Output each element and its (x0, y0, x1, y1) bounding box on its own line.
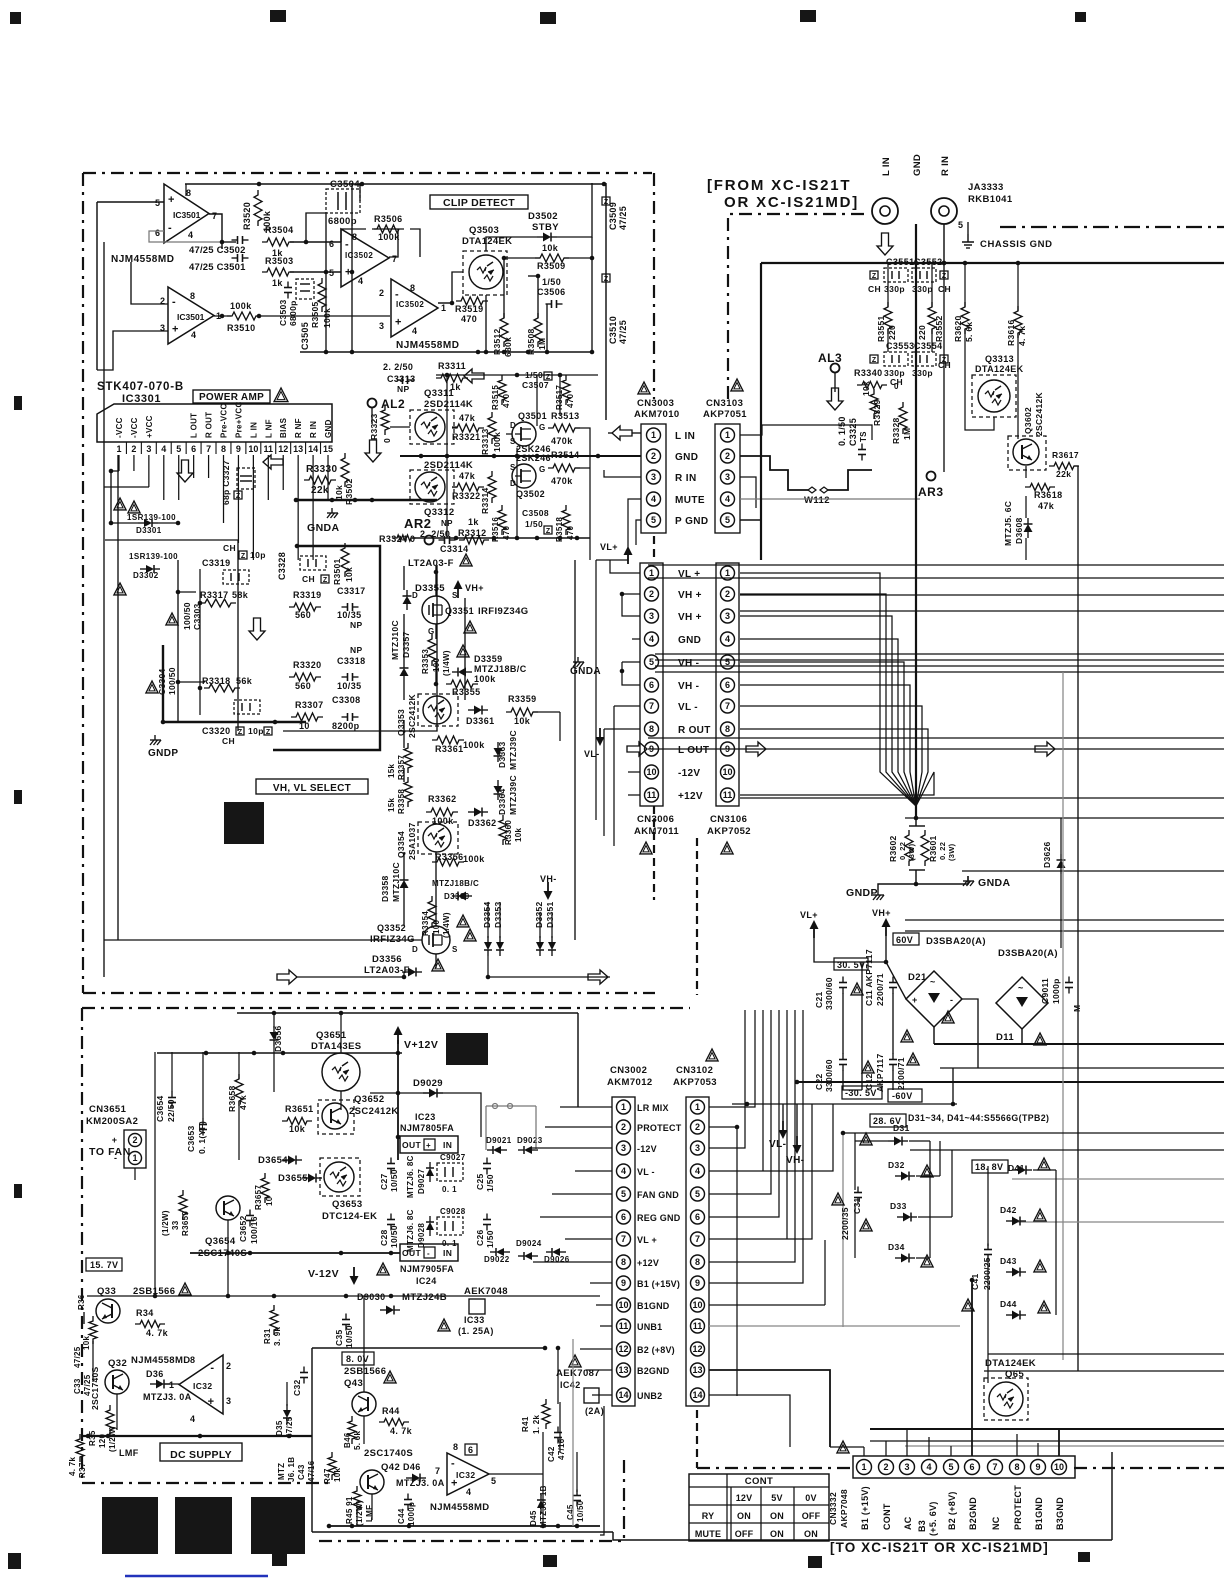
thick feedback path left (162, 645, 164, 722)
svg-text:L IN: L IN (881, 157, 892, 176)
connector CN3003 body (641, 424, 666, 533)
svg-text:C3308: C3308 (332, 695, 361, 705)
wire supply rail 1296 (87, 1295, 600, 1297)
svg-text:CH: CH (938, 284, 951, 294)
svg-text:GND: GND (675, 452, 698, 463)
svg-text:15k: 15k (387, 764, 396, 778)
wire supply dc block bottom rail (82, 1435, 312, 1437)
svg-text:D31: D31 (893, 1123, 910, 1133)
svg-text:GND: GND (912, 154, 923, 176)
svg-text:C3318: C3318 (337, 656, 366, 666)
CN3002 pin 9 (617, 1276, 631, 1290)
svg-text:MTZJ3. 0A: MTZJ3. 0A (143, 1392, 192, 1402)
wire right bus lines lower (934, 1043, 1224, 1045)
CN3106 pin 4 (721, 632, 735, 646)
svg-text:9: 9 (695, 1278, 700, 1288)
svg-text:15. 7V: 15. 7V (90, 1260, 118, 1270)
svg-text:R35: R35 (88, 1430, 97, 1446)
svg-text:[TO XC-IS21T OR XC-IS21MD]: [TO XC-IS21T OR XC-IS21MD] (830, 1540, 1049, 1555)
node AR3 (927, 472, 936, 481)
svg-text:22k: 22k (311, 485, 329, 496)
open arrow L OUT far right (1035, 742, 1055, 756)
svg-text:R IN: R IN (940, 156, 951, 176)
svg-text:10k: 10k (514, 828, 523, 842)
svg-text:C3554: C3554 (914, 341, 943, 351)
supply board dashed border left (81, 1008, 83, 1483)
resistor R3505 100k vertical (318, 278, 326, 312)
black rectangle 3 (251, 1497, 305, 1554)
svg-text:3300/60: 3300/60 (824, 977, 834, 1010)
supply board dashed border bottom-left (82, 1482, 332, 1484)
svg-text:C3314: C3314 (440, 544, 469, 554)
svg-text:R3616: R3616 (1006, 319, 1016, 346)
svg-text:10: 10 (618, 1300, 628, 1310)
svg-text:MTZJ24B: MTZJ24B (402, 1292, 447, 1303)
svg-text:C3507: C3507 (522, 380, 549, 390)
CN3332 pin 8 (1010, 1460, 1025, 1475)
wires CN3002 left stubs (560, 1106, 612, 1108)
svg-text:B46: B46 (343, 1432, 352, 1448)
svg-text:4: 4 (695, 1166, 700, 1176)
svg-text:6: 6 (621, 1212, 626, 1222)
svg-text:NJM4558MD: NJM4558MD (111, 254, 174, 265)
thick vertical P GND (760, 263, 762, 560)
svg-text:CONT: CONT (882, 1503, 892, 1530)
svg-text:+: + (112, 1135, 117, 1145)
node AR2 (425, 536, 434, 545)
svg-text:~: ~ (1018, 983, 1024, 993)
power amp label box (193, 390, 270, 403)
svg-text:2200/25: 2200/25 (982, 1257, 992, 1290)
svg-text:-: - (427, 1249, 430, 1258)
svg-text:MTZJ6. 8C: MTZJ6. 8C (406, 1209, 415, 1252)
CN3106 pin 5 (721, 655, 735, 669)
wire top bus right (761, 262, 1224, 264)
resistor R3317 58k (200, 599, 236, 607)
svg-text:MTZJ3. 0A: MTZJ3. 0A (396, 1478, 445, 1488)
wire CN3106 pin to fan x928 (740, 729, 928, 806)
CN3102 pin 14 (691, 1388, 705, 1402)
svg-text:2SC2412K: 2SC2412K (1034, 391, 1044, 436)
svg-text:MTZJ10C: MTZJ10C (391, 862, 401, 902)
warning triangle c31 (832, 1193, 844, 1205)
clip detect label box (430, 195, 528, 209)
svg-text:10: 10 (265, 1196, 274, 1206)
svg-text:D: D (412, 591, 418, 600)
capacitor C3505 dashed (296, 279, 314, 299)
CN3103 pin 1 (721, 428, 735, 442)
ground GNDA mid (916, 876, 968, 884)
svg-text:3: 3 (621, 1143, 626, 1153)
svg-text:VH+: VH+ (465, 583, 484, 593)
jumper z2 (264, 727, 272, 735)
resistor R31 3.9k vertical (270, 1305, 278, 1335)
wire jack gnd down (915, 224, 917, 818)
CN3106 pin 6 (721, 678, 735, 692)
svg-text:MTZ: MTZ (277, 1463, 286, 1480)
voltage label 60V (893, 933, 919, 945)
svg-text:5: 5 (491, 1476, 496, 1486)
connector CN3106 AKP7052 body (716, 563, 739, 806)
svg-text:Q3653: Q3653 (332, 1199, 363, 1210)
svg-text:R3501: R3501 (332, 558, 342, 585)
svg-text:+12V: +12V (678, 791, 703, 802)
svg-text:47/25: 47/25 (73, 1346, 82, 1368)
svg-text:D45: D45 (529, 1510, 538, 1526)
svg-text:R3340: R3340 (854, 368, 883, 378)
resistor R3602 0.22 3W (915, 818, 917, 826)
capacitor C35 10/50 vertical (342, 1319, 350, 1321)
svg-text:AKP7052: AKP7052 (707, 826, 751, 837)
svg-text:7: 7 (621, 1234, 626, 1244)
resistor 10k vertical (89, 1316, 97, 1344)
svg-text:IC3502: IC3502 (396, 300, 424, 309)
svg-text:47/25: 47/25 (618, 206, 628, 230)
svg-text:6: 6 (969, 1462, 974, 1472)
capacitor C3653 0.1(YF) vertical (199, 1124, 207, 1126)
supply board dashed border bottom-right (1074, 1467, 1224, 1469)
mosfet Q3351 IRFI9Z34G (422, 596, 450, 624)
svg-text:VH-: VH- (540, 874, 557, 884)
svg-text:CN3103: CN3103 (706, 398, 743, 409)
svg-text:1k: 1k (272, 278, 283, 288)
svg-text:47/16: 47/16 (557, 1438, 566, 1460)
svg-text:2: 2 (883, 1462, 888, 1472)
svg-text:(1/4W): (1/4W) (442, 650, 451, 676)
svg-text:MTZJ39C: MTZJ39C (508, 730, 518, 770)
resistor B46 5.6k vertical (348, 1416, 356, 1444)
CN3102 pin 5 (691, 1187, 705, 1201)
svg-text:470: 470 (461, 314, 477, 324)
dashed border jog around sub-box (319, 1540, 624, 1542)
resistor R3519 470 (456, 297, 488, 305)
svg-text:-VCC: -VCC (115, 417, 124, 438)
svg-text:5: 5 (725, 515, 730, 525)
thick gnd rail below R3330 (294, 499, 437, 501)
transistor Q3654 2SC1740S (216, 1196, 240, 1220)
svg-text:0V: 0V (805, 1493, 816, 1503)
svg-text:R3359: R3359 (508, 694, 537, 704)
svg-text:9: 9 (236, 444, 241, 454)
svg-text:6: 6 (329, 239, 334, 249)
svg-text:CLIP DETECT: CLIP DETECT (443, 197, 515, 209)
svg-text:B1 (+15V): B1 (+15V) (637, 1279, 680, 1289)
svg-text:GND: GND (324, 419, 333, 438)
CN3002 pin 8 (617, 1255, 631, 1269)
wires CN3102 right routing (709, 1010, 755, 1107)
resistor R3313 100k vertical (488, 412, 496, 444)
svg-text:R3519: R3519 (455, 304, 484, 314)
warning triangle power amp (274, 388, 288, 402)
svg-text:10/50: 10/50 (389, 1169, 399, 1192)
svg-text:+12V: +12V (637, 1258, 659, 1268)
svg-text:7: 7 (435, 1466, 440, 1476)
table CONT (689, 1474, 829, 1541)
wire supply right links (736, 1290, 738, 1396)
svg-text:3: 3 (725, 611, 730, 621)
svg-text:NC: NC (991, 1516, 1001, 1530)
svg-text:CN3332: CN3332 (828, 1492, 838, 1525)
svg-text:R3329: R3329 (872, 399, 882, 426)
svg-text:Z: Z (942, 273, 947, 280)
svg-text:D34: D34 (888, 1242, 905, 1252)
chassis ground symbol (967, 222, 969, 234)
wire gray vertical x843 (842, 1133, 844, 1327)
CN3106 pin 2 (721, 587, 735, 601)
svg-text:14: 14 (692, 1390, 702, 1400)
svg-text:LMF: LMF (119, 1448, 139, 1458)
svg-text:Q3651: Q3651 (316, 1030, 347, 1041)
registration mark bottom-left (8, 1553, 21, 1569)
voltage label -60V (888, 1089, 922, 1102)
svg-text:R44: R44 (382, 1406, 400, 1416)
wire amp lower rail (104, 939, 422, 941)
jumper z below power amp (234, 491, 242, 499)
svg-text:R3552: R3552 (934, 315, 944, 342)
svg-text:7: 7 (212, 211, 217, 221)
svg-text:(+5. 6V): (+5. 6V) (928, 1501, 938, 1536)
svg-text:OUT: OUT (402, 1140, 422, 1150)
svg-text:2: 2 (695, 1122, 700, 1132)
svg-text:Q3351: Q3351 (445, 606, 474, 616)
CN3106 pin 9 (721, 742, 735, 756)
svg-text:1/50: 1/50 (485, 1174, 495, 1192)
svg-text:12: 12 (692, 1344, 702, 1354)
svg-text:22/50: 22/50 (166, 1099, 176, 1122)
svg-text:VL +: VL + (637, 1235, 657, 1245)
svg-text:4: 4 (649, 634, 654, 644)
voltage label -30.5V (842, 1086, 882, 1099)
wires CN3003 left side (600, 455, 641, 457)
resistor R3515 470 vertical (498, 375, 506, 405)
svg-text:CH: CH (868, 284, 881, 294)
svg-text:0: 0 (894, 382, 899, 391)
capacitor C26 1/50 vertical (483, 1219, 491, 1221)
svg-text:2: 2 (621, 1122, 626, 1132)
svg-text:OFF: OFF (802, 1511, 821, 1521)
ground GNDP amp (154, 735, 156, 740)
svg-text:Z: Z (241, 553, 246, 560)
ground GNDA right (577, 657, 579, 662)
svg-text:10/50: 10/50 (389, 1225, 399, 1248)
svg-text:100k: 100k (230, 301, 252, 311)
vertical wires right of IC32b (542, 1432, 544, 1526)
chassis boundary dash-dot right (1000, 226, 1224, 228)
svg-text:R31: R31 (263, 1328, 272, 1344)
capacitor C3501 47/25 (237, 254, 239, 262)
svg-text:C3652: C3652 (238, 1215, 248, 1242)
CN3102 pin 10 (691, 1298, 705, 1312)
svg-text:10k: 10k (289, 1124, 306, 1134)
svg-text:R3330: R3330 (306, 464, 338, 475)
svg-text:C3313: C3313 (387, 374, 416, 384)
wire left verticals vh vl (177, 560, 179, 722)
svg-text:-VCC: -VCC (130, 417, 139, 438)
svg-text:G: G (539, 423, 546, 432)
svg-text:3: 3 (651, 472, 656, 482)
svg-text:8: 8 (221, 444, 226, 454)
svg-text:-60V: -60V (892, 1091, 913, 1101)
registration mark left y790 (14, 790, 22, 804)
svg-text:Q32: Q32 (108, 1358, 127, 1369)
svg-text:4: 4 (161, 444, 166, 454)
svg-text:C11 AKP7117: C11 AKP7117 (864, 949, 874, 1006)
svg-text:D: D (510, 421, 516, 430)
svg-text:Q3502: Q3502 (516, 489, 545, 499)
svg-text:DC SUPPLY: DC SUPPLY (170, 1449, 232, 1461)
svg-text:33: 33 (171, 1220, 180, 1230)
svg-text:C3508: C3508 (522, 508, 549, 518)
svg-text:S: S (452, 945, 458, 954)
svg-text:3: 3 (695, 1143, 700, 1153)
svg-text:LT2A03-F: LT2A03-F (364, 965, 410, 976)
jumper W112 (808, 487, 816, 493)
wires lower-left amp block (105, 539, 238, 541)
svg-text:1000p: 1000p (407, 1502, 416, 1526)
ground GNDA power amp (331, 508, 333, 513)
svg-text:R3361: R3361 (435, 744, 464, 754)
svg-text:2SC2412K: 2SC2412K (349, 1106, 399, 1117)
svg-text:VH, VL SELECT: VH, VL SELECT (273, 783, 351, 794)
voltage label 15.7V (86, 1258, 122, 1271)
CN3102 pin 6 (691, 1210, 705, 1224)
connector CN3332 AKP7048 body (853, 1456, 1075, 1478)
svg-text:VL+: VL+ (600, 542, 618, 552)
wire IC3501 upper input loop (97, 201, 164, 203)
label V+12V (397, 1028, 399, 1044)
svg-text:5V: 5V (771, 1493, 782, 1503)
wire bottom of amp to arrows (104, 976, 296, 978)
svg-text:2SB1566: 2SB1566 (344, 1366, 386, 1377)
svg-text:47k: 47k (459, 471, 476, 481)
svg-text:3. 9k: 3. 9k (273, 1326, 282, 1346)
capacitor C9027 0.1 dashed (437, 1163, 463, 1181)
svg-text:1: 1 (725, 568, 730, 578)
svg-text:R36: R36 (77, 1294, 86, 1310)
CN3002 pin 1 (617, 1100, 631, 1114)
svg-text:-30. 5V: -30. 5V (845, 1088, 877, 1098)
CN3002 pin 5 (617, 1187, 631, 1201)
black rectangle 2 (175, 1497, 232, 1554)
capacitor C3327 68p (237, 468, 255, 489)
svg-text:STBY: STBY (532, 222, 559, 233)
svg-text:CN3006: CN3006 (637, 814, 674, 825)
svg-text:ON: ON (737, 1511, 751, 1521)
wires Q65 (988, 1383, 989, 1399)
svg-text:14: 14 (618, 1390, 628, 1400)
svg-text:10k: 10k (861, 381, 871, 396)
CN3003 pin 3 (647, 470, 661, 484)
CN3106 pin 11 (721, 788, 735, 802)
svg-text:R34: R34 (136, 1308, 154, 1318)
svg-text:D11: D11 (996, 1032, 1014, 1043)
svg-text:NJM7905FA: NJM7905FA (400, 1264, 454, 1274)
svg-text:0. 1(YF): 0. 1(YF) (197, 1121, 207, 1154)
open arrow below AL2 (365, 440, 381, 462)
svg-text:CH: CH (222, 736, 235, 746)
svg-text:R3509: R3509 (537, 261, 566, 271)
warning triangle IC33 (438, 1319, 450, 1331)
svg-text:D3356: D3356 (372, 954, 402, 965)
svg-text:100k: 100k (463, 740, 485, 750)
svg-text:R3551: R3551 (876, 315, 886, 342)
svg-text:R3360: R3360 (504, 820, 513, 845)
capacitor C45 10/50 vertical (573, 1495, 581, 1497)
wires CN3006 left stubs (610, 560, 640, 573)
svg-text:100k: 100k (492, 432, 502, 452)
svg-text:R3504: R3504 (265, 225, 294, 235)
warning triangle Q3351 (464, 621, 476, 633)
svg-text:680k: 680k (503, 337, 513, 357)
svg-text:4: 4 (725, 634, 730, 644)
svg-text:G: G (539, 465, 546, 474)
svg-text:C33: C33 (73, 1378, 82, 1394)
svg-text:-: - (395, 289, 399, 301)
bus wires across input stage (344, 418, 346, 448)
CN3102 pin 3 (691, 1141, 705, 1155)
label VH- (547, 882, 549, 898)
svg-text:ON: ON (770, 1511, 784, 1521)
op-amp IC3502 upper (341, 229, 389, 287)
registration mark left y1184 (14, 1184, 22, 1198)
CN3106 pin 1 (721, 566, 735, 580)
svg-text:Pre+VCC: Pre+VCC (234, 401, 243, 438)
svg-text:220: 220 (917, 325, 927, 340)
registration mark bottom x808 (808, 1556, 822, 1568)
svg-text:18. 8V: 18. 8V (975, 1162, 1003, 1172)
svg-text:C25: C25 (475, 1174, 485, 1191)
svg-text:S: S (452, 591, 458, 600)
wires supply top (273, 1046, 275, 1092)
svg-text:JA3333: JA3333 (968, 182, 1004, 193)
warning triangle D3301 (114, 498, 126, 510)
svg-text:R3322: R3322 (452, 491, 481, 501)
svg-text:D3301: D3301 (136, 526, 162, 535)
svg-text:Z: Z (872, 357, 877, 364)
wires CN3103 pin3-5 (738, 477, 755, 505)
svg-text:10k: 10k (514, 716, 531, 726)
svg-text:+: + (395, 316, 401, 328)
CN3332 pin 3 (900, 1460, 915, 1475)
regulator IC24 NJM7905FA (400, 1244, 458, 1261)
svg-text:Q3503: Q3503 (469, 225, 499, 236)
svg-text:8: 8 (1014, 1462, 1019, 1472)
svg-text:6: 6 (695, 1212, 700, 1222)
svg-text:470k: 470k (551, 476, 573, 486)
svg-text:GNDP: GNDP (846, 887, 878, 899)
svg-text:KM200SA2: KM200SA2 (86, 1116, 138, 1127)
CN3332 pin 2 (879, 1460, 894, 1475)
resistor R3329 10k vertical (870, 389, 878, 419)
svg-text:5: 5 (176, 444, 181, 454)
svg-text:D9027: D9027 (417, 1169, 426, 1194)
svg-text:LMF: LMF (365, 1505, 374, 1522)
svg-text:AKM7010: AKM7010 (634, 409, 680, 420)
resistor R3517 470 vertical (562, 375, 570, 405)
svg-text:GNDA: GNDA (307, 522, 340, 534)
open arrow R3311 (464, 369, 484, 383)
svg-text:7: 7 (695, 1234, 700, 1244)
CN3003 pin 1 (647, 428, 661, 442)
registration mark bottom x272 (272, 1554, 287, 1566)
svg-text:11: 11 (723, 790, 733, 800)
resistor R3353 100 vertical (428, 634, 436, 666)
svg-text:+VCC: +VCC (145, 415, 154, 438)
warning triangle caps3 (862, 1061, 874, 1073)
svg-text:2: 2 (379, 288, 384, 298)
wire R IN down (943, 224, 945, 263)
svg-text:Q3311: Q3311 (424, 388, 454, 399)
